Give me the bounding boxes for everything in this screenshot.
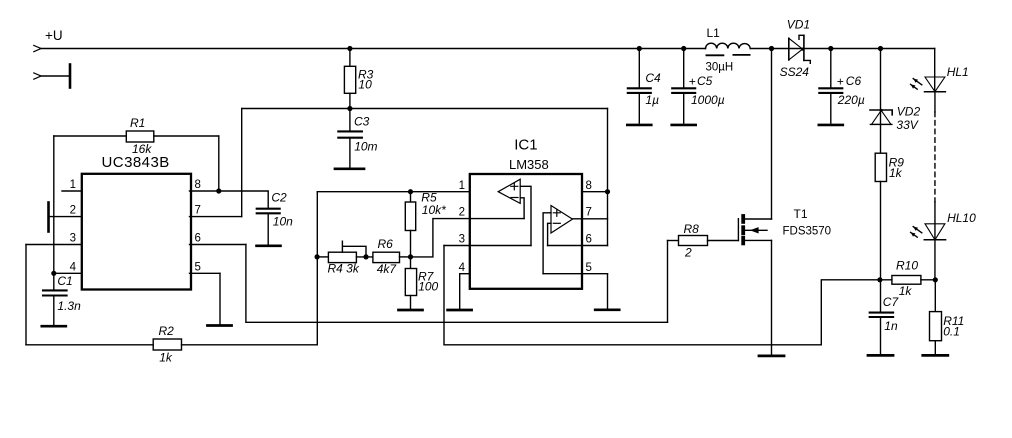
transistor T1 FDS3570 — [738, 207, 831, 245]
svg-text:1k: 1k — [159, 350, 173, 364]
wire T1 drain to boost node — [769, 46, 774, 219]
capacitor C7 — [870, 280, 900, 354]
pin 3 UC3843B — [26, 233, 82, 245]
diode VD1 SS24 — [780, 18, 811, 80]
svg-text:220µ: 220µ — [837, 93, 865, 107]
svg-text:R8: R8 — [684, 222, 700, 236]
resistor R11 — [930, 280, 965, 354]
svg-text:6: 6 — [195, 233, 201, 245]
op-amp IC1 second amplifier — [543, 206, 572, 274]
wire R5 node to IC1 pin 2 — [411, 219, 471, 257]
svg-text:+: + — [837, 74, 844, 88]
svg-text:HL10: HL10 — [947, 211, 976, 225]
ground under C7 — [868, 354, 893, 357]
pin 1 UC3843B — [62, 179, 82, 191]
wire pin 5 to ground — [219, 273, 221, 324]
pin 2 UC3843B — [49, 205, 82, 217]
resistor R3 — [344, 46, 373, 109]
wire UC pin 6 output bus — [246, 245, 668, 323]
pin 4 IC1 — [459, 262, 470, 274]
pin 6 IC1 — [548, 234, 608, 246]
svg-text:7: 7 — [195, 205, 201, 217]
svg-text:+U: +U — [45, 28, 63, 43]
svg-text:C7: C7 — [883, 295, 900, 309]
LED HL10 — [911, 202, 977, 280]
svg-text:4: 4 — [70, 262, 77, 274]
resistor R10 — [877, 258, 938, 298]
svg-text:7: 7 — [586, 207, 592, 219]
wire R1 right to pin 8 — [218, 136, 220, 191]
ground under R7 — [399, 309, 423, 312]
wire rail corner to HL1 — [934, 49, 936, 92]
wire Vcc row — [242, 106, 608, 217]
svg-text:R1: R1 — [130, 116, 145, 130]
svg-text:2: 2 — [459, 207, 465, 219]
svg-text:IC1: IC1 — [514, 137, 537, 154]
zener diode VD2 — [870, 105, 920, 133]
wire IC1 pin 3 to sense bus — [444, 246, 821, 345]
pin 3 IC1 — [444, 234, 531, 246]
LED HL1 — [911, 65, 969, 112]
ground under UC3843B pin 5 — [208, 324, 232, 327]
svg-text:C5: C5 — [697, 74, 713, 88]
svg-text:+: + — [689, 74, 696, 88]
wire IC1 pin 4 to ground — [459, 274, 461, 309]
pin 5 UC3843B — [190, 262, 221, 274]
svg-text:VD2: VD2 — [897, 105, 921, 119]
wire main +U rail — [40, 48, 935, 50]
pin 4 UC3843B — [51, 262, 82, 276]
resistor R2 — [26, 324, 317, 364]
ground under IC1 pin 4 — [448, 309, 472, 312]
svg-text:C4: C4 — [645, 71, 661, 85]
ground under C5 — [672, 124, 696, 127]
svg-text:0.1: 0.1 — [943, 325, 960, 339]
ground under C1 — [42, 325, 66, 328]
ground under IC1 pin 5 — [595, 308, 619, 311]
node pin 2 terminal bar — [47, 203, 50, 232]
svg-text:R10: R10 — [896, 258, 918, 272]
pin 8 UC3843B — [190, 179, 222, 193]
svg-text:LM358: LM358 — [509, 157, 549, 172]
svg-text:5: 5 — [195, 262, 201, 274]
capacitor C2 — [219, 190, 293, 244]
inductor L1 — [706, 26, 751, 74]
svg-text:100: 100 — [418, 280, 438, 294]
svg-text:L1: L1 — [707, 26, 721, 40]
svg-text:1k: 1k — [899, 284, 913, 298]
svg-text:4: 4 — [459, 262, 466, 274]
pin 7 UC3843B — [190, 205, 242, 217]
svg-text:C2: C2 — [271, 190, 287, 204]
svg-text:SS24: SS24 — [780, 65, 810, 79]
pin 1 IC1 — [459, 180, 465, 192]
capacitor C3 — [338, 109, 377, 168]
pin 2 IC1 — [459, 207, 525, 219]
ground under C4 — [627, 124, 651, 127]
svg-text:8: 8 — [195, 179, 201, 191]
svg-text:1k: 1k — [889, 166, 903, 180]
pin 7 IC1 — [573, 207, 608, 219]
wire sense bus up to R10 row — [821, 280, 880, 345]
wire zener branch down — [878, 46, 883, 153]
wire dashed LED chain — [934, 112, 936, 202]
ground under T1 source — [759, 354, 784, 357]
ground under R11 — [923, 354, 948, 357]
wire T1 source to ground — [771, 240, 773, 354]
pin 8 IC1 — [582, 180, 610, 194]
svg-text:R4 3k: R4 3k — [328, 262, 360, 276]
ground under C6 — [819, 124, 843, 127]
svg-text:C1: C1 — [57, 274, 72, 288]
svg-text:1.3n: 1.3n — [57, 299, 81, 313]
ground under C2 — [257, 245, 281, 248]
wire R1 left to pin 4 column — [53, 136, 55, 273]
svg-text:T1: T1 — [794, 207, 808, 221]
wire R2 right up to R4 node — [316, 192, 318, 345]
wire bus up to R8 — [667, 241, 669, 323]
svg-text:VD1: VD1 — [787, 18, 810, 32]
svg-text:3: 3 — [70, 233, 76, 245]
svg-text:1n: 1n — [884, 319, 898, 333]
svg-text:HL1: HL1 — [947, 65, 969, 79]
resistor R1 — [54, 116, 219, 156]
svg-text:10k*: 10k* — [422, 203, 446, 217]
pin 6 UC3843B — [190, 233, 246, 245]
resistor R7 — [405, 257, 438, 309]
svg-text:8: 8 — [586, 180, 592, 192]
capacitor C5 — [672, 46, 724, 123]
svg-text:10: 10 — [358, 77, 372, 91]
svg-text:2: 2 — [70, 205, 76, 217]
svg-text:10m: 10m — [354, 140, 377, 154]
pin 5 IC1 — [543, 262, 607, 274]
svg-text:R2: R2 — [159, 324, 175, 338]
potentiometer R4 — [315, 241, 373, 275]
resistor R6 — [373, 237, 411, 276]
capacitor C6 — [819, 46, 865, 123]
svg-text:1µ: 1µ — [645, 93, 659, 107]
resistor R5 — [405, 189, 446, 259]
node +U input terminal — [34, 28, 63, 52]
op-amp U1 IC1 LM358 body — [470, 137, 582, 289]
ground under C3 — [335, 167, 364, 170]
wire IC1 pin 5 to ground — [607, 274, 609, 309]
resistor R8 — [668, 222, 739, 260]
svg-text:33V: 33V — [896, 118, 918, 132]
svg-text:2: 2 — [684, 246, 692, 260]
op-amp IC1 first amplifier — [498, 179, 531, 245]
capacitor C4 — [628, 46, 661, 123]
wire IC1 pin 1 row — [317, 191, 498, 193]
svg-text:1000µ: 1000µ — [691, 93, 725, 107]
capacitor C1 — [43, 273, 81, 325]
svg-text:4k7: 4k7 — [377, 262, 398, 276]
svg-text:C3: C3 — [354, 114, 370, 128]
op-amp U2 UC3843B body — [82, 154, 191, 290]
svg-text:R6: R6 — [378, 237, 394, 251]
svg-text:5: 5 — [586, 262, 592, 274]
node second input terminal — [34, 65, 70, 88]
svg-text:30µH: 30µH — [706, 62, 734, 74]
wire Vcc down to IC1 pin 8 and follower link — [607, 109, 609, 246]
svg-text:1: 1 — [459, 180, 465, 192]
resistor R9 — [875, 153, 904, 280]
svg-text:3: 3 — [459, 234, 465, 246]
svg-text:10n: 10n — [273, 214, 293, 228]
svg-text:UC3843B: UC3843B — [102, 154, 170, 171]
svg-text:FDS3570: FDS3570 — [783, 226, 832, 238]
svg-text:6: 6 — [586, 234, 592, 246]
wire pin 3 down to R2 row — [25, 245, 27, 345]
svg-text:1: 1 — [70, 179, 76, 191]
svg-text:C6: C6 — [846, 74, 862, 88]
